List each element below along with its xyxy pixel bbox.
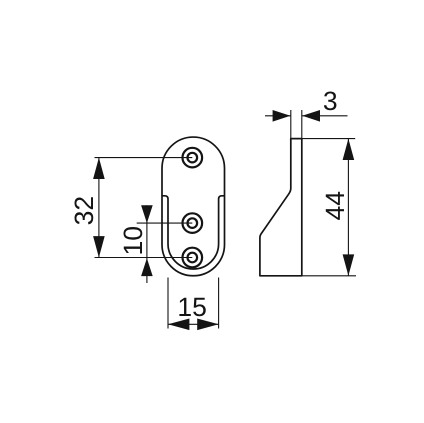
- arrow dim32 bottom: [93, 236, 105, 257]
- hole H1 top: inner circle: [188, 153, 198, 163]
- arrow dim15 left (points left): [168, 319, 189, 331]
- front view: inner groove contour (rail cavity): [162, 196, 225, 269]
- dimension line 10: [146, 205, 148, 283]
- extension line 44 bottom: [302, 275, 356, 277]
- dimension line 32: [98, 158, 100, 258]
- front view: stadium-shaped plate outline: [162, 137, 225, 276]
- dimension line 3 left stub: [265, 115, 291, 117]
- arrow dim3 right (points left): [302, 110, 320, 122]
- arrow dim32 top: [93, 158, 105, 179]
- svg-text:44: 44: [320, 191, 350, 220]
- extension line 15 left: [167, 278, 169, 329]
- svg-text:3: 3: [323, 86, 338, 116]
- hole H3 bottom: outer circle: [183, 248, 203, 268]
- hole H1 top: outer circle: [183, 148, 203, 168]
- arrow dim3 left (points right): [273, 110, 291, 122]
- hole H2 middle: inner circle: [188, 218, 198, 228]
- svg-text:10: 10: [118, 226, 148, 255]
- extension line 3 right: [301, 110, 303, 139]
- dimension line 15: [168, 323, 219, 325]
- dimension line 3 right stub: [302, 115, 348, 117]
- extension line 3 left: [290, 110, 292, 139]
- arrow dim15 right (points right): [197, 319, 218, 331]
- extension line from hole H1 center: [95, 157, 193, 159]
- arrow dim10 bottom (points up): [141, 258, 153, 276]
- extension line 15 right: [218, 278, 220, 329]
- svg-text:15: 15: [177, 292, 206, 322]
- arrow dim44 top: [343, 139, 355, 160]
- svg-text:32: 32: [69, 196, 99, 225]
- dimension line 44: [347, 139, 349, 276]
- arrow dim44 bottom: [343, 254, 355, 275]
- arrow dim10 top (points down): [141, 205, 153, 223]
- extension line from hole H3 center: [95, 257, 193, 259]
- side view: profile outline: [260, 139, 302, 276]
- extension line from hole H2 center: [137, 222, 193, 224]
- hole H2 middle: outer circle: [183, 213, 203, 233]
- hole H3 bottom: inner circle: [188, 253, 198, 263]
- extension line 44 top: [302, 138, 355, 140]
